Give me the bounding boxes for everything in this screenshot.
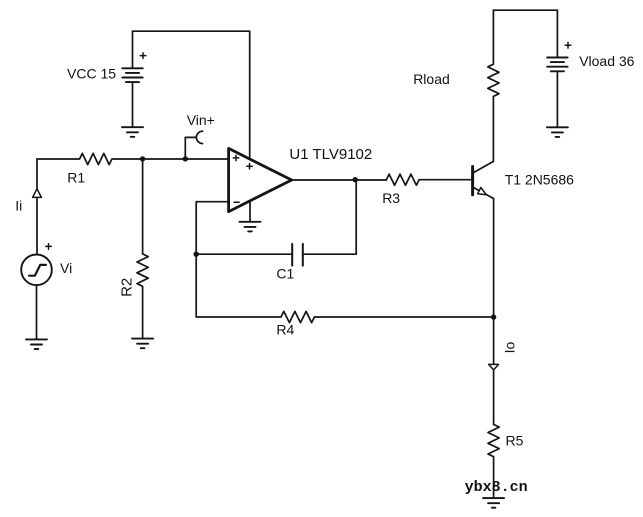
- resistor R5: [488, 424, 499, 498]
- node junction R1/R2: [140, 156, 145, 161]
- wire Vi source up-leg: [36, 159, 38, 255]
- ground below R2: [132, 339, 153, 349]
- op-amp supply plus mark: [247, 164, 252, 169]
- resistor R2 vertical: [137, 159, 148, 339]
- wire collector to Rload: [492, 96, 494, 161]
- battery VCC stem top: [132, 31, 134, 68]
- svg-text:R5: R5: [506, 432, 524, 448]
- transistor T1 emitter arrow: [478, 188, 487, 195]
- current arrow Io: [489, 364, 499, 370]
- svg-text:ybx8.cn: ybx8.cn: [465, 479, 528, 496]
- wire C1 to output: [303, 180, 356, 255]
- battery Vload plus: [565, 42, 571, 48]
- capacitor C1 plates: [292, 244, 303, 266]
- battery VCC plus: [140, 53, 146, 59]
- svg-text:T1 2N5686: T1 2N5686: [505, 171, 574, 187]
- wire emitter branch down: [493, 199, 495, 425]
- ground below R5: [483, 498, 504, 508]
- node Vin+ probe junction: [183, 156, 188, 161]
- svg-text:Vi: Vi: [60, 260, 72, 276]
- svg-text:R4: R4: [276, 322, 294, 338]
- transistor T1 collector lead: [474, 161, 494, 172]
- resistor R3: [386, 174, 471, 185]
- svg-text:U1 TLV9102: U1 TLV9102: [289, 146, 372, 163]
- svg-text:Ii: Ii: [15, 197, 22, 213]
- voltage source Vi circle: [21, 254, 52, 285]
- svg-text:Rload: Rload: [413, 71, 450, 87]
- current arrow Ii: [33, 189, 42, 198]
- svg-text:R2: R2: [119, 278, 136, 297]
- ground below Vi: [26, 339, 47, 349]
- ground below Vload: [547, 127, 568, 137]
- probe Vin+ hook: [185, 137, 196, 159]
- node feedback junction: [194, 252, 199, 257]
- wire top right rail: [493, 10, 557, 57]
- op-amp plus input mark: [233, 155, 238, 160]
- wire Vload to ground: [556, 71, 558, 127]
- transistor T1 base bar: [471, 167, 474, 195]
- op-amp U1 triangle: [229, 148, 292, 211]
- resistor Rload: [488, 10, 499, 96]
- svg-text:Vin+: Vin+: [187, 112, 215, 128]
- battery Vload plates: [547, 58, 567, 72]
- wire node to C1: [196, 253, 292, 255]
- voltage source Vi plus: [46, 244, 52, 250]
- wire node down to R4: [196, 254, 493, 322]
- svg-text:C1: C1: [276, 266, 294, 282]
- wire battery VCC to ground: [132, 82, 134, 127]
- transistor T1 emitter lead: [474, 188, 494, 199]
- ground below op-amp: [240, 222, 261, 232]
- wire top supply rail VCC to op-amp: [133, 31, 250, 159]
- wire Vi to ground: [36, 285, 38, 339]
- node output junction: [353, 177, 358, 182]
- voltage source Vi waveform: [29, 265, 46, 276]
- wire op-amp output: [292, 179, 387, 181]
- op-amp ground stem: [249, 201, 251, 222]
- svg-text:VCC 15: VCC 15: [67, 66, 116, 82]
- svg-text:Io: Io: [502, 342, 518, 354]
- svg-text:R1: R1: [67, 169, 85, 185]
- battery VCC plates: [122, 68, 142, 82]
- wire inverting input to feedback node: [196, 202, 228, 255]
- wire input rail with resistor R1: [37, 153, 229, 164]
- ground below VCC: [122, 127, 143, 137]
- svg-text:Vload 36: Vload 36: [579, 53, 634, 69]
- node R4 junction on emitter branch: [491, 314, 496, 319]
- svg-text:R3: R3: [382, 190, 400, 206]
- op-amp minus input mark: [234, 201, 239, 203]
